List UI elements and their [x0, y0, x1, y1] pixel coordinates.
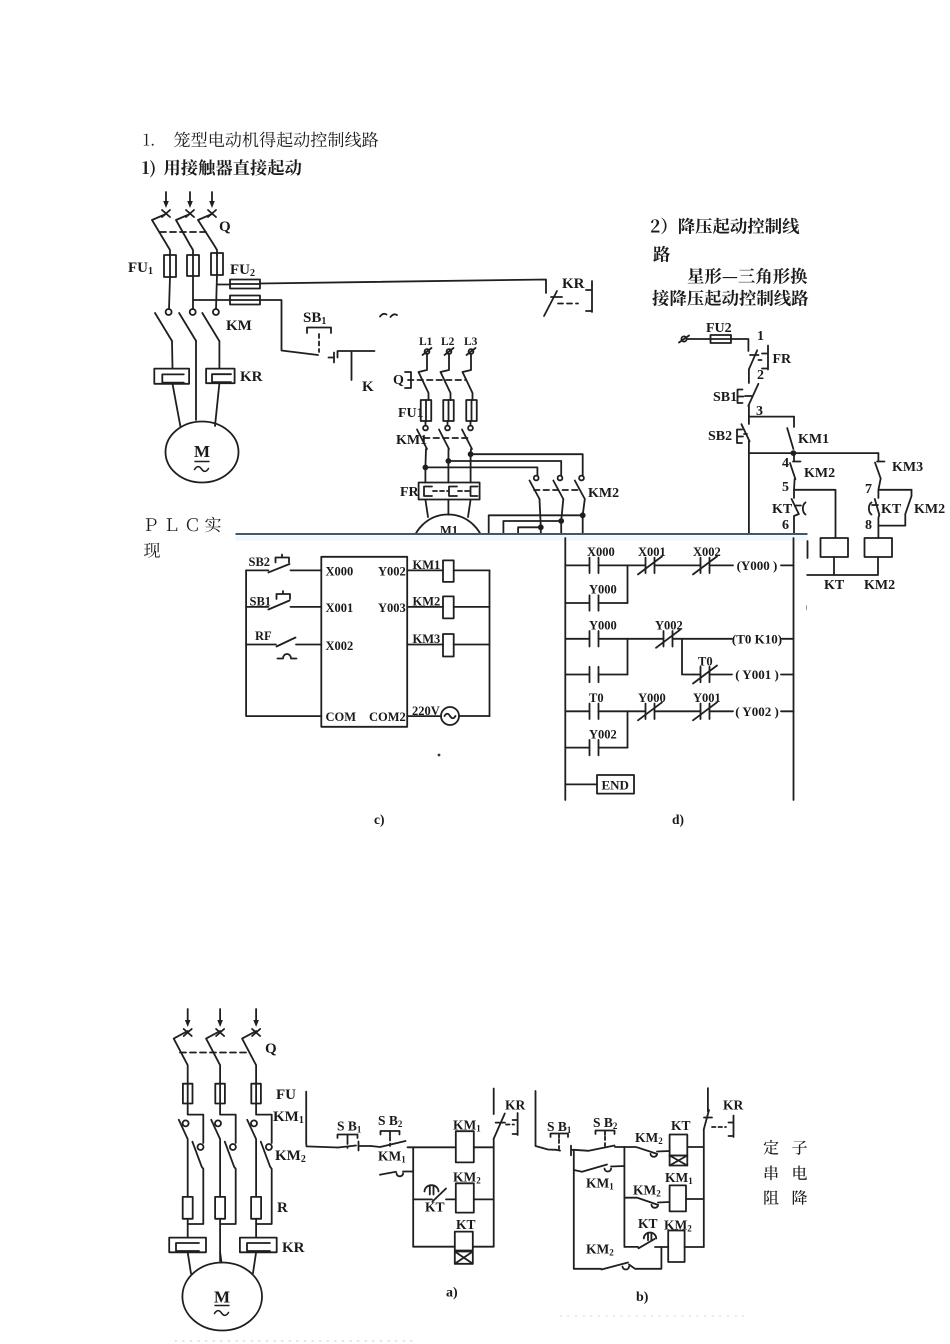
svg-text:KT: KT	[425, 1200, 445, 1215]
left branch vertical a)	[412, 1147, 414, 1246]
right heading block	[651, 218, 799, 234]
fuse FU2 (control circuit feed)	[217, 284, 230, 286]
svg-text:KR: KR	[240, 369, 263, 385]
coil KT	[821, 538, 849, 557]
wires to motor M	[188, 1252, 256, 1273]
svg-text:(T0 K10): (T0 K10)	[732, 631, 782, 646]
svg-text:X001: X001	[326, 601, 354, 615]
svg-text:KR: KR	[723, 1098, 744, 1113]
wires fuse to contactor	[169, 275, 217, 309]
svg-text:a): a)	[446, 1286, 458, 1301]
svg-text:L2: L2	[441, 336, 455, 348]
svg-text:FR: FR	[773, 352, 793, 367]
faint scan specks bottom	[175, 1340, 415, 1342]
svg-text:KM: KM	[226, 318, 252, 334]
heading line 2	[142, 160, 154, 177]
branch to KM3	[877, 453, 879, 461]
svg-text:T0: T0	[589, 691, 604, 705]
svg-text:KT: KT	[638, 1216, 658, 1231]
svg-text:SB2: SB2	[249, 555, 271, 569]
svg-text:8: 8	[865, 518, 872, 533]
svg-text:Q: Q	[265, 1041, 277, 1057]
contactor KM1 / KM2 bypass contacts and resistor R	[188, 1104, 204, 1144]
ladder rails	[565, 538, 793, 800]
contactor KM main contacts	[166, 309, 172, 315]
fuse FU (bottom)	[183, 1084, 193, 1104]
svg-text:KM2: KM2	[588, 486, 619, 501]
PLC text box (white with blue top border)	[236, 534, 807, 837]
svg-text:K: K	[362, 379, 374, 395]
timed contact KT a)	[425, 1185, 439, 1191]
svg-text:Y000: Y000	[589, 583, 617, 597]
svg-text:R: R	[277, 1200, 288, 1216]
power feed arrows circuit 1	[165, 192, 167, 203]
svg-text:c): c)	[374, 812, 385, 827]
svg-text:RF: RF	[255, 629, 272, 643]
svg-text:5: 5	[782, 480, 789, 495]
svg-text:KT: KT	[824, 578, 845, 593]
svg-text:END: END	[602, 778, 629, 793]
svg-text:SB1: SB1	[713, 390, 737, 405]
svg-text:Y002: Y002	[589, 728, 617, 742]
circuit a) feed	[306, 1092, 338, 1148]
thermal relay contact KR (control)	[544, 291, 557, 316]
svg-text:(Y000 ): (Y000 )	[737, 558, 778, 573]
svg-text:X002: X002	[326, 639, 354, 653]
output rail	[489, 570, 491, 716]
svg-text:FR: FR	[400, 485, 420, 500]
svg-text:Q: Q	[393, 373, 404, 388]
coil return wires	[806, 541, 878, 575]
thermal relay KR (bottom)	[169, 1238, 206, 1253]
motor M circuit 1	[166, 422, 239, 483]
wires KM to KR	[172, 341, 219, 420]
svg-text:d): d)	[672, 812, 684, 827]
common rail	[246, 570, 321, 716]
svg-text:Y003: Y003	[378, 601, 406, 615]
coil KM2	[865, 538, 893, 557]
svg-text:KR: KR	[505, 1098, 526, 1113]
svg-text:FU1: FU1	[398, 406, 424, 421]
mid branch vertical b)	[623, 1147, 625, 1247]
svg-text:SB2: SB2	[708, 429, 732, 444]
svg-text:( Y002 ): ( Y002 )	[735, 704, 779, 719]
END block	[565, 783, 597, 785]
svg-text:KM2: KM2	[864, 578, 895, 593]
supply terminal	[681, 336, 686, 341]
fragment of covered SB2 label	[380, 314, 397, 317]
svg-text:( Y001 ): ( Y001 )	[735, 667, 779, 682]
svg-text:KM3: KM3	[892, 460, 923, 475]
svg-text:KM1: KM1	[798, 432, 829, 447]
wires to FR / delta contacts with junction nodes	[425, 449, 471, 483]
svg-text:KR: KR	[282, 1240, 305, 1256]
svg-text:6: 6	[782, 518, 789, 533]
svg-text:L3: L3	[464, 336, 478, 348]
svg-text:KT: KT	[671, 1118, 691, 1133]
power feed arrows (bottom circuit)	[187, 1009, 189, 1022]
wire to contactor coil K	[338, 351, 375, 380]
thermal contact FR (NC)	[749, 350, 757, 369]
left branch vertical b)	[573, 1150, 575, 1269]
parallel contact (rung 2)	[565, 674, 589, 676]
svg-text:X000: X000	[587, 545, 615, 559]
svg-text:M: M	[214, 1288, 230, 1307]
PLC box	[321, 557, 407, 727]
svg-text:FU: FU	[276, 1087, 296, 1103]
svg-text:Y000: Y000	[589, 619, 617, 633]
svg-text:X000: X000	[326, 565, 354, 579]
wire FU2 to KR contact	[260, 280, 546, 294]
svg-text:7: 7	[865, 482, 872, 497]
svg-text:b): b)	[636, 1290, 649, 1305]
heading line 1	[144, 134, 154, 146]
thermal relay KR heaters	[154, 369, 189, 384]
timed contact KT (right)	[869, 503, 872, 515]
svg-text:L1: L1	[419, 336, 433, 348]
svg-text:1: 1	[757, 329, 764, 344]
wires KR to motor	[173, 383, 220, 427]
svg-text:KT: KT	[456, 1217, 476, 1232]
motor M1	[412, 515, 485, 588]
contact KM3 (NC)	[875, 462, 885, 479]
svg-text:2: 2	[757, 368, 764, 383]
svg-text:Y002: Y002	[378, 565, 406, 579]
contact KM2 (right branch)	[905, 490, 911, 526]
disconnect switch Q	[152, 214, 170, 255]
svg-text:COM: COM	[326, 710, 357, 724]
wires FR to motor M1	[425, 500, 470, 518]
disconnect switch Q (bottom)	[174, 1031, 188, 1084]
delta connection wiring	[540, 499, 585, 527]
wire FU2 to start button	[260, 300, 318, 355]
svg-text:M: M	[194, 442, 210, 461]
svg-text:KM2: KM2	[804, 466, 835, 481]
node line 453	[749, 441, 879, 533]
fuse FU1 (circuit 1)	[164, 255, 176, 277]
svg-text:KT: KT	[772, 502, 793, 517]
svg-text:COM2: COM2	[369, 710, 406, 724]
svg-text:KR: KR	[562, 276, 585, 292]
svg-text:KM2: KM2	[914, 502, 945, 517]
motor M (bottom)	[182, 1263, 262, 1331]
svg-text:Q: Q	[219, 219, 231, 235]
svg-text:4: 4	[782, 456, 789, 471]
disconnect switch Q (star-delta)	[419, 354, 429, 400]
svg-text:FU2: FU2	[706, 321, 732, 336]
self-hold contact KM1	[787, 417, 794, 449]
svg-text:KT: KT	[881, 502, 902, 517]
circuit b) feed	[536, 1091, 557, 1150]
PLC caption	[146, 518, 157, 531]
caption 定子串电阻降	[764, 1140, 779, 1155]
